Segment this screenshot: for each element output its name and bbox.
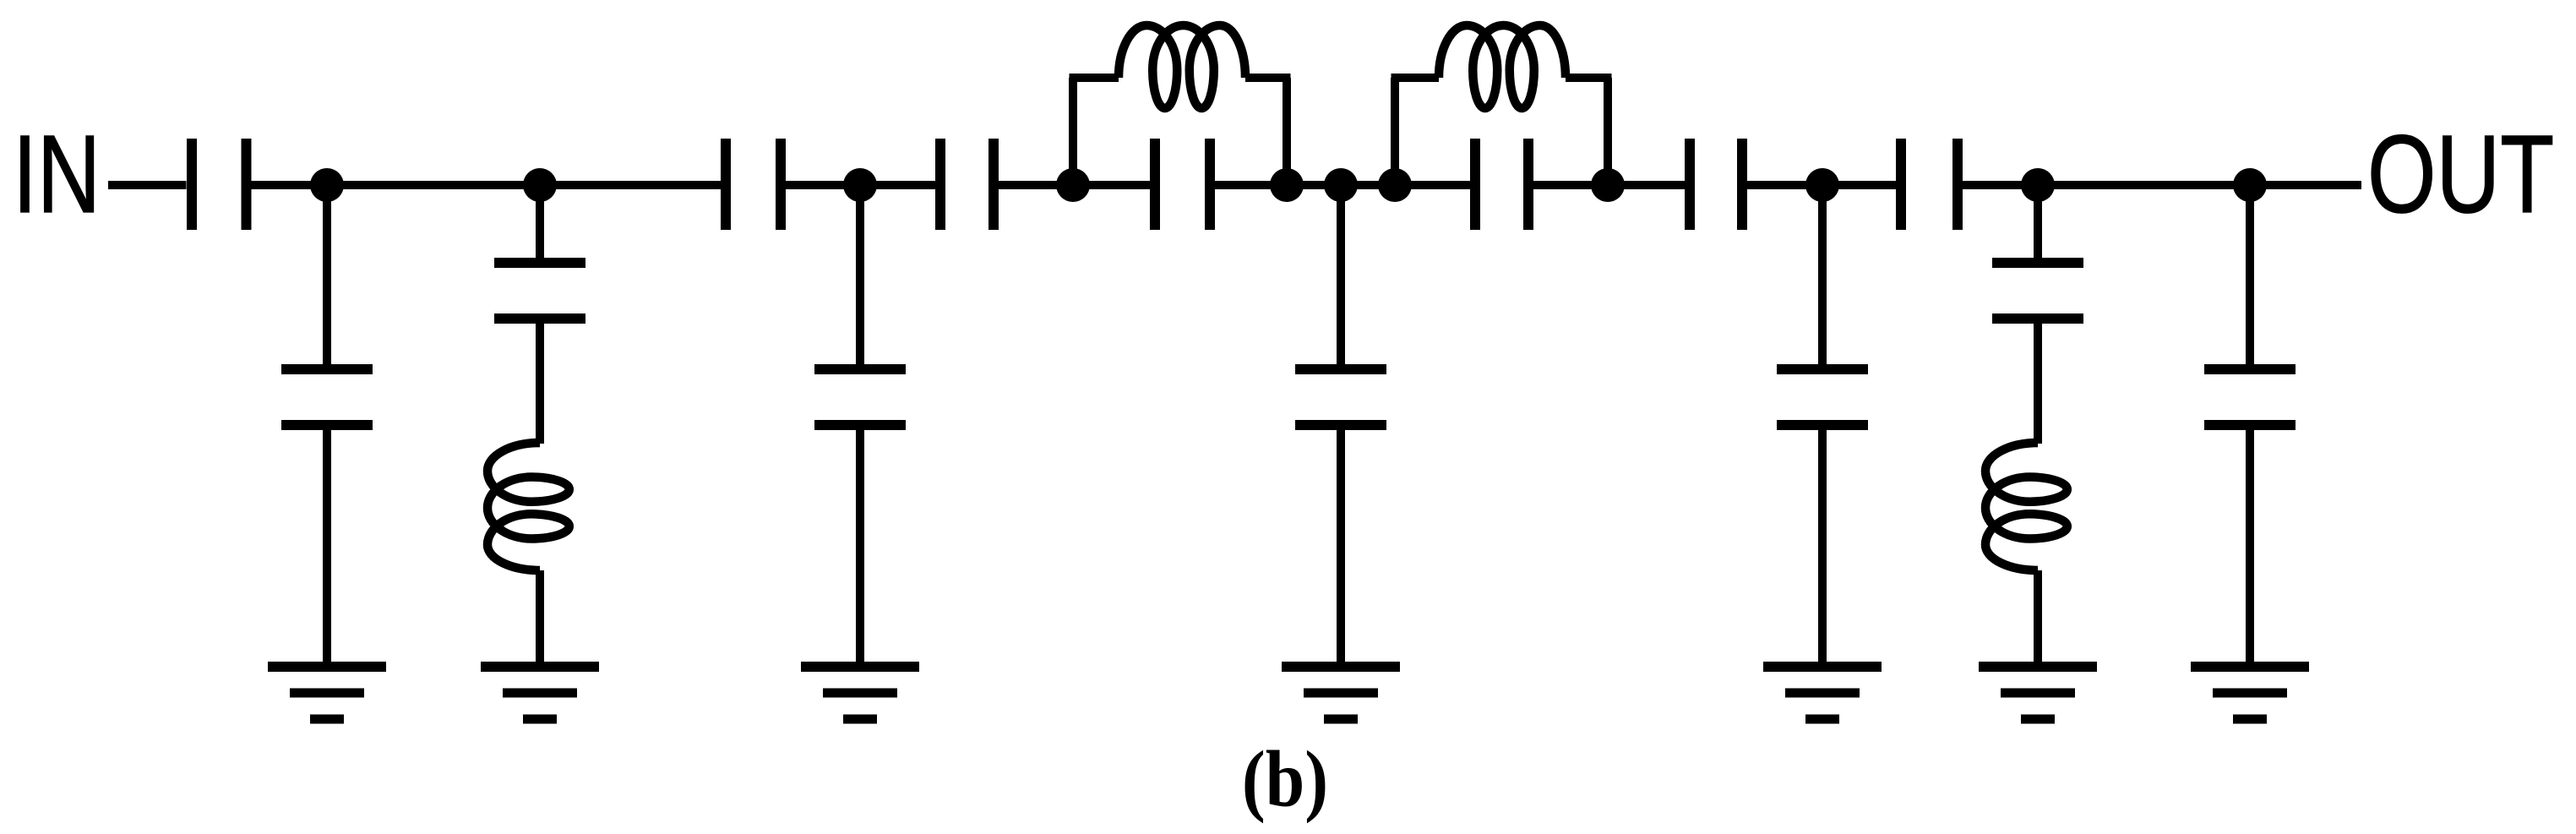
capacitor C4 (series): [726, 139, 781, 230]
wire L4 to ground: [2034, 570, 2042, 667]
wire shunt down from node K: [2246, 185, 2254, 365]
wire shunt down from node B: [536, 185, 544, 259]
svg-text:OUT: OUT: [2367, 113, 2554, 237]
capacitor C6 (series): [940, 139, 994, 230]
inductor L1 (vertical coil): [487, 443, 569, 570]
capacitor C11 (shunt): [1777, 369, 1868, 425]
svg-text:(b): (b): [1242, 735, 1328, 824]
inductor L4 (vertical coil): [1985, 443, 2067, 570]
wire C5 to ground: [856, 430, 864, 668]
wire C10 to node I: [1747, 181, 1823, 189]
wire node K to OUT: [2250, 181, 2361, 189]
wire node F to node G: [1341, 181, 1395, 189]
ground symbol below L4: [1979, 667, 2097, 719]
ground symbol below L1: [481, 667, 599, 719]
wire node E to node F: [1287, 181, 1341, 189]
wire C11 to ground: [1818, 430, 1827, 668]
ground symbol below C8: [1282, 667, 1400, 719]
capacitor C13 (shunt): [1992, 263, 2083, 319]
capacitor C3 (shunt): [494, 263, 585, 319]
wire C12 to node J: [1963, 181, 2039, 189]
wire riser left of LC section 1: [1069, 78, 1077, 185]
capacitor C7 (series, parallel with L2): [1155, 139, 1210, 230]
inductor L2 (horizontal coil): [1119, 25, 1245, 108]
capacitor C12 (series): [1901, 139, 1958, 230]
wire C6 to node D: [999, 181, 1074, 189]
node J (junction dot): [2021, 168, 2055, 202]
capacitor C5 (shunt): [814, 369, 906, 425]
wire C1 to node A: [251, 181, 541, 189]
wire C8 to ground: [1337, 430, 1345, 668]
wire C7 to node E: [1215, 181, 1288, 189]
wire top-left of LC section 2: [1391, 74, 1440, 82]
ground symbol below C11: [1763, 667, 1882, 719]
node F (junction dot): [1324, 168, 1358, 202]
wire node J to node K: [2038, 181, 2250, 189]
wire top-left of LC section 1: [1070, 74, 1119, 82]
wire C13 to inductor L4: [2034, 324, 2042, 444]
node I (junction dot): [1805, 168, 1839, 202]
wire node H to C10: [1608, 181, 1686, 189]
wire node C to C6: [860, 181, 936, 189]
ground symbol below C5: [801, 667, 919, 719]
wire C14 to ground: [2246, 430, 2254, 668]
capacitor C1 (series): [192, 139, 247, 230]
wire node I to C12: [1822, 181, 1897, 189]
ground symbol below C2: [268, 667, 386, 719]
capacitor C14 (shunt): [2204, 369, 2296, 425]
node B (junction dot): [523, 168, 557, 202]
wire shunt down from node C: [856, 185, 864, 365]
wire node G to C9: [1395, 181, 1471, 189]
wire riser left of LC section 2: [1391, 78, 1399, 185]
svg-text:IN: IN: [13, 113, 101, 237]
wire shunt down from node I: [1818, 185, 1827, 365]
wire riser right of LC section 1: [1283, 78, 1291, 185]
node C (junction dot): [843, 168, 877, 202]
wire top-right of LC section 2: [1566, 74, 1612, 82]
node D (junction dot): [1056, 168, 1090, 202]
wire C3 to inductor L1: [536, 324, 544, 444]
wire C4 to node C: [786, 181, 861, 189]
node G (junction dot): [1378, 168, 1412, 202]
wire shunt down from node F: [1337, 185, 1345, 365]
node H (junction dot): [1591, 168, 1625, 202]
wire IN to C1: [108, 181, 187, 189]
wire L1 to ground: [536, 570, 544, 667]
node A (junction dot): [310, 168, 344, 202]
capacitor C9 (series, parallel with L3): [1475, 139, 1528, 230]
wire C2 to ground: [323, 430, 331, 668]
wire shunt down from node A: [323, 185, 331, 365]
inductor L3 (horizontal coil): [1439, 25, 1566, 108]
wire node B to C4: [540, 181, 722, 189]
wire riser right of LC section 2: [1604, 78, 1612, 185]
wire shunt down from node J: [2034, 185, 2042, 259]
capacitor C10 (series): [1690, 139, 1742, 230]
ground symbol below C14: [2191, 667, 2309, 719]
node E (junction dot): [1270, 168, 1304, 202]
capacitor C2 (shunt): [281, 369, 373, 425]
wire node D to C7: [1073, 181, 1151, 189]
capacitor C8 (shunt): [1295, 369, 1386, 425]
wire top-right of LC section 1: [1245, 74, 1291, 82]
node K (junction dot): [2233, 168, 2267, 202]
wire C9 to node H: [1533, 181, 1609, 189]
